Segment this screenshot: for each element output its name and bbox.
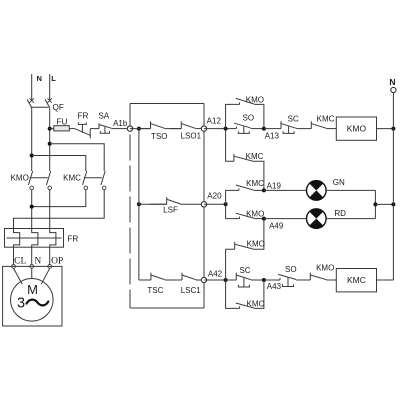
svg-text:QF: QF (53, 103, 64, 112)
svg-text:SC: SC (239, 266, 250, 275)
svg-text:KMC: KMC (246, 179, 264, 188)
svg-text:M: M (27, 282, 38, 297)
svg-text:3: 3 (17, 296, 25, 312)
svg-text:KMO: KMO (11, 174, 29, 183)
svg-text:KMC: KMC (246, 152, 264, 161)
svg-text:LSF: LSF (163, 205, 178, 214)
svg-text:KMC: KMC (347, 275, 366, 285)
svg-text:N: N (34, 256, 41, 266)
svg-text:FU: FU (57, 117, 68, 126)
svg-text:CL: CL (14, 256, 26, 266)
svg-text:A49: A49 (269, 221, 284, 230)
svg-text:FR: FR (78, 111, 89, 120)
svg-text:A42: A42 (208, 270, 223, 279)
svg-text:KMC: KMC (63, 174, 81, 183)
svg-text:RD: RD (334, 209, 346, 218)
svg-text:TSO: TSO (151, 132, 167, 141)
svg-text:KMO: KMO (316, 264, 334, 273)
svg-text:L: L (51, 74, 56, 83)
svg-text:KMC: KMC (247, 299, 265, 308)
svg-text:LSO1: LSO1 (181, 132, 202, 141)
svg-text:A20: A20 (207, 191, 222, 200)
svg-text:A1b: A1b (113, 119, 128, 128)
svg-text:GN: GN (333, 178, 345, 187)
svg-text:KMO: KMO (246, 209, 264, 218)
svg-text:FR: FR (67, 235, 78, 244)
svg-text:KMO: KMO (247, 240, 265, 249)
svg-text:A43: A43 (267, 282, 282, 291)
svg-text:KMC: KMC (317, 114, 335, 123)
svg-text:SO: SO (285, 265, 297, 274)
svg-text:SA: SA (98, 111, 109, 120)
svg-text:SC: SC (288, 114, 299, 123)
svg-text:A13: A13 (265, 132, 280, 141)
svg-text:LSC1: LSC1 (181, 286, 202, 295)
svg-text:OP: OP (51, 256, 63, 266)
svg-text:A12: A12 (207, 117, 222, 126)
svg-text:KMO: KMO (347, 124, 367, 134)
svg-text:N: N (389, 77, 395, 87)
svg-text:KMO: KMO (246, 96, 264, 105)
svg-text:SO: SO (243, 114, 255, 123)
svg-text:TSC: TSC (147, 286, 163, 295)
svg-text:A19: A19 (267, 181, 282, 190)
svg-text:N: N (36, 74, 41, 83)
